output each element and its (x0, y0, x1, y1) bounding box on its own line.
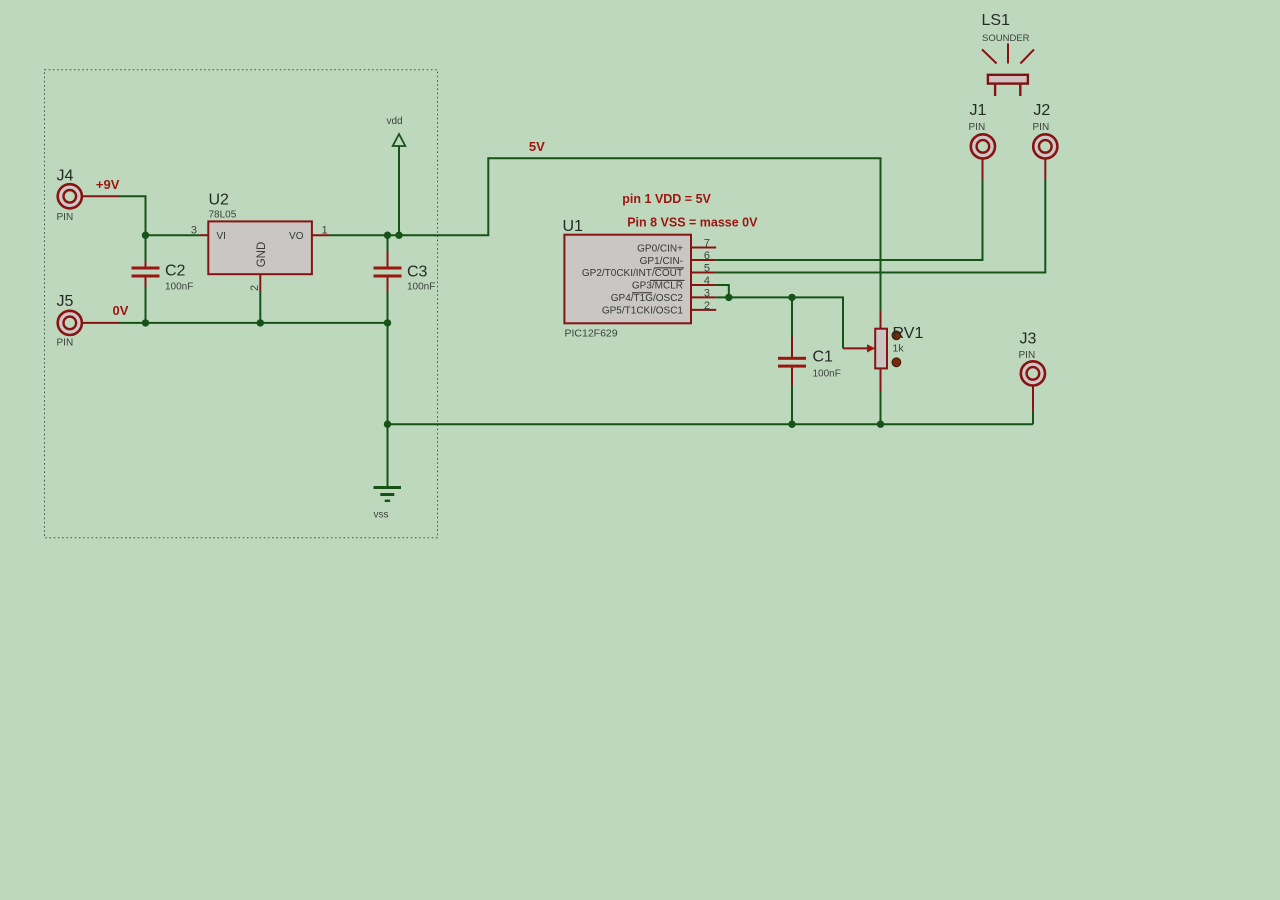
svg-text:RV1: RV1 (893, 325, 924, 342)
ground symbol vss (374, 486, 402, 521)
U2 GND pin wire (259, 274, 261, 323)
svg-text:PIN: PIN (969, 122, 986, 133)
svg-text:GP4/T1G/OSC2: GP4/T1G/OSC2 (611, 293, 684, 304)
capacitor C2 (132, 235, 194, 323)
svg-text:GND: GND (256, 242, 268, 268)
microcontroller U1 PIC12F629 (563, 218, 692, 340)
svg-text:0V: 0V (113, 303, 129, 318)
connector J4 (57, 168, 82, 224)
wire pin 4 jog to pin 3 (716, 285, 729, 297)
svg-text:LS1: LS1 (982, 12, 1011, 29)
dashed enclosure box (45, 70, 438, 538)
junction node C1 top (788, 294, 795, 301)
svg-text:J2: J2 (1033, 102, 1050, 119)
svg-text:C3: C3 (407, 264, 428, 281)
svg-text:7: 7 (704, 238, 710, 250)
label Pin 8 VSS = masse 0V (627, 216, 758, 230)
wire pin 6 to J1 (716, 159, 982, 260)
svg-text:J3: J3 (1020, 331, 1037, 348)
wire U2 VO to 5V line down to RV1 (312, 158, 881, 311)
svg-text:4: 4 (704, 275, 710, 287)
junction node VI line (142, 232, 149, 239)
junction node RV1 bottom (877, 421, 884, 428)
connector J5 (57, 293, 82, 349)
junction node C1 bottom (788, 421, 795, 428)
sounder LS1 (982, 12, 1035, 96)
svg-text:SOUNDER: SOUNDER (982, 33, 1030, 44)
svg-text:2: 2 (704, 300, 710, 312)
U1 pin 6 stub (691, 250, 716, 262)
svg-text:5V: 5V (529, 139, 545, 154)
junction node pin4-pin3 (725, 294, 732, 301)
wire vss stem (387, 323, 389, 486)
svg-text:GP2/T0CKI/INT/COUT: GP2/T0CKI/INT/COUT (582, 268, 683, 279)
wire J4 to VI node (83, 196, 146, 235)
svg-text:vss: vss (374, 510, 389, 521)
junction node C2 bottom (142, 319, 149, 326)
potentiometer RV1 (875, 311, 923, 424)
svg-text:1: 1 (322, 225, 328, 237)
wire pin 5 to J2 (716, 159, 1045, 273)
regulator U2 78L05 (191, 192, 328, 292)
svg-text:J5: J5 (57, 293, 74, 310)
svg-text:Pin 8 VSS = masse 0V: Pin 8 VSS = masse 0V (627, 216, 758, 230)
label +9V (96, 177, 120, 192)
svg-text:C2: C2 (165, 263, 186, 280)
capacitor C1 (778, 297, 841, 424)
svg-text:VO: VO (289, 231, 304, 242)
U1 pin 3 stub (691, 287, 716, 299)
svg-text:78L05: 78L05 (209, 210, 237, 221)
svg-text:6: 6 (704, 250, 710, 262)
svg-text:J1: J1 (970, 102, 987, 119)
svg-text:5: 5 (704, 263, 710, 275)
svg-text:J4: J4 (57, 168, 74, 185)
svg-text:3: 3 (704, 287, 710, 299)
svg-text:1k: 1k (893, 343, 905, 355)
wire J5 to 0V rail (83, 322, 388, 324)
connector J1 (969, 102, 996, 158)
U1 pin 5 stub (691, 263, 716, 275)
junction node U2 GND (257, 319, 264, 326)
U1 pin 2 stub (691, 300, 716, 312)
svg-text:3: 3 (191, 225, 197, 237)
junction node vdd (395, 232, 402, 239)
svg-text:pin 1 VDD = 5V: pin 1 VDD = 5V (622, 192, 711, 206)
svg-text:VI: VI (217, 231, 226, 242)
junction node vss rail (384, 421, 391, 428)
U1 pin 4 stub (691, 275, 716, 287)
label 5V (529, 139, 545, 154)
svg-text:PIN: PIN (57, 338, 74, 349)
svg-text:U1: U1 (563, 218, 584, 235)
svg-text:100nF: 100nF (813, 369, 841, 380)
svg-text:PIC12F629: PIC12F629 (565, 328, 618, 340)
connector J2 (1033, 102, 1058, 158)
wire bottom ground rail (388, 423, 1034, 425)
U1 pin 7 stub (691, 238, 716, 250)
svg-text:100nF: 100nF (165, 282, 193, 293)
wire J3 riser (1032, 386, 1034, 424)
svg-text:GP5/T1CKI/OSC1: GP5/T1CKI/OSC1 (602, 306, 684, 317)
power symbol vdd (387, 116, 406, 235)
junction node C3 top (384, 232, 391, 239)
svg-text:U2: U2 (209, 192, 230, 209)
svg-text:GP0/CIN+: GP0/CIN+ (637, 243, 683, 254)
svg-text:PIN: PIN (1033, 122, 1050, 133)
capacitor C3 (374, 235, 436, 323)
svg-text:vdd: vdd (387, 116, 403, 127)
wire pin 3 to RV1 wiper (716, 297, 875, 352)
svg-text:+9V: +9V (96, 177, 120, 192)
svg-text:C1: C1 (813, 349, 834, 366)
wire node to U2 VI pin (146, 234, 210, 236)
junction node 0V rail (384, 319, 391, 326)
svg-text:100nF: 100nF (407, 282, 435, 293)
svg-text:GP3/MCLR: GP3/MCLR (632, 281, 683, 292)
label pin 1 VDD = 5V (622, 192, 711, 206)
svg-text:2: 2 (249, 285, 261, 291)
svg-text:PIN: PIN (1019, 350, 1036, 361)
svg-text:GP1/CIN-: GP1/CIN- (640, 256, 683, 267)
label 0V (113, 303, 129, 318)
svg-text:PIN: PIN (57, 212, 74, 223)
connector J3 (1019, 331, 1046, 386)
